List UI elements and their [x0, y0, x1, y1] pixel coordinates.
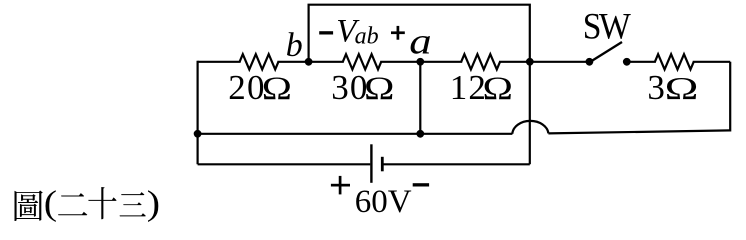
- node junction below a: [416, 130, 424, 138]
- wire segment 20Ω to 30Ω: [277, 61, 343, 63]
- svg-text:3: 3: [647, 68, 666, 107]
- svg-text:SW: SW: [583, 6, 632, 47]
- wire middle horizontal right part (to 3Ω branch): [548, 130, 730, 133]
- wire segment 12Ω to switch: [499, 61, 589, 63]
- wire segment 30Ω to 12Ω: [380, 61, 462, 63]
- label plus of Vab: [391, 26, 405, 40]
- wire crossover hop: [512, 121, 548, 134]
- node junction left mid: [194, 130, 202, 138]
- wire right vertical from node down to bottom wire: [529, 62, 531, 165]
- svg-text:b: b: [286, 27, 303, 64]
- svg-text:30: 30: [331, 68, 368, 107]
- wire left vertical: [197, 61, 199, 165]
- figure caption 圖(二十三): [15, 184, 161, 223]
- wire Vab loop (top rectangle b to right node): [309, 5, 530, 62]
- resistor R4 3Ω zigzag: [655, 54, 694, 69]
- label + battery positive: [331, 176, 350, 195]
- wire battery to right vertical: [383, 163, 530, 165]
- svg-text:Ω: Ω: [364, 71, 394, 107]
- svg-text:ab: ab: [355, 24, 379, 50]
- label - battery negative: [413, 183, 429, 186]
- node b junction dot: [305, 58, 313, 66]
- svg-text:12: 12: [450, 68, 487, 107]
- wire bottom left to battery: [198, 163, 371, 165]
- wire vertical below node a: [419, 62, 421, 134]
- svg-text:Ω: Ω: [262, 70, 292, 107]
- resistor R1 20Ω zigzag: [240, 54, 279, 69]
- svg-text:20: 20: [228, 68, 265, 107]
- svg-text:): ): [147, 184, 160, 223]
- wire right vertical of 3Ω branch: [729, 62, 731, 132]
- svg-text:a: a: [409, 20, 431, 61]
- label Vab voltage annotation: [336, 14, 378, 50]
- wire middle horizontal left part: [198, 133, 513, 135]
- switch SW contacts and arm: [586, 42, 631, 66]
- label SW: [583, 6, 632, 47]
- svg-text:60V: 60V: [355, 184, 412, 220]
- svg-text:Ω: Ω: [665, 70, 699, 106]
- node junction right of 12Ω: [526, 58, 534, 66]
- node a junction dot: [416, 58, 424, 66]
- label node a: [409, 20, 431, 61]
- resistor R2 30Ω zigzag: [343, 54, 381, 69]
- wire main left segment: [198, 61, 241, 63]
- wire segment switch to 3Ω: [627, 61, 656, 63]
- wire segment 3Ω to right corner: [693, 61, 731, 63]
- svg-text:Ω: Ω: [483, 71, 513, 107]
- svg-text:(: (: [44, 184, 57, 223]
- label minus of Vab: [319, 31, 333, 34]
- battery V1 60V plates: [371, 144, 382, 183]
- resistor R3 12Ω zigzag: [461, 54, 500, 69]
